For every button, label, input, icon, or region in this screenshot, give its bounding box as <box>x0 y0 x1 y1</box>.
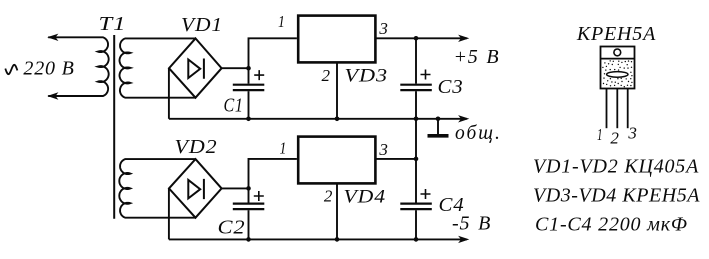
svg-text:1: 1 <box>597 125 603 144</box>
transformer T1 secondary winding upper <box>120 38 196 97</box>
svg-text:VD2: VD2 <box>175 136 218 158</box>
node C2 bottom on -5V rail <box>246 237 251 242</box>
arrowhead -5V <box>458 236 469 243</box>
node ground tap on common rail <box>436 117 441 122</box>
svg-text:C1: C1 <box>224 94 244 116</box>
capacitor C1 <box>233 68 264 119</box>
voltage regulator VD4 box <box>298 137 375 184</box>
wire common rail down to VD4 pin3 node <box>415 119 417 159</box>
svg-text:2: 2 <box>322 66 331 85</box>
wire riser C2 node to VD4 pin 1 <box>249 159 297 189</box>
bridge rectifier VD2 diamond <box>169 159 222 218</box>
capacitor C3 <box>400 38 432 119</box>
node C3 top on +5V rail <box>414 36 419 41</box>
node C1 bottom on common rail <box>246 117 251 122</box>
wire VD4 pin 3 to node <box>375 158 416 160</box>
wire VD3 pin 2 <box>336 62 338 118</box>
svg-text:VD3: VD3 <box>345 65 389 86</box>
node VD4 pin3 junction <box>414 157 419 162</box>
svg-text:C1-C4 2200 мкФ: C1-C4 2200 мкФ <box>535 214 688 236</box>
svg-text:VD1-VD2 КЦ405А: VD1-VD2 КЦ405А <box>533 156 699 178</box>
svg-text:T1: T1 <box>99 13 127 35</box>
arrowhead primary bottom lead <box>47 92 58 99</box>
sine symbol 220V <box>5 65 17 74</box>
KREN5A package stipple dots <box>602 60 632 87</box>
capacitor C4 <box>400 159 432 240</box>
capacitor C2 <box>233 188 264 239</box>
voltage regulator VD3 box <box>298 16 375 63</box>
svg-text:3: 3 <box>378 19 388 38</box>
diode symbol inside VD1 <box>188 59 204 79</box>
wire VD4 pin 2 <box>336 183 338 239</box>
wire VD2 minus vertical to bottom rail <box>168 188 170 239</box>
bridge rectifier VD1 diamond <box>169 38 222 97</box>
wire VD1 minus vertical to common rail <box>168 68 170 119</box>
diode symbol inside VD2 <box>188 179 204 199</box>
arrowhead common <box>458 115 469 122</box>
svg-text:VD3-VD4 КРЕН5А: VD3-VD4 КРЕН5А <box>533 185 700 207</box>
svg-text:VD1: VD1 <box>181 14 223 36</box>
ground symbol (common) <box>437 119 439 134</box>
transformer T1 secondary winding lower <box>119 159 195 218</box>
arrowhead +5V <box>458 35 469 42</box>
node VD4 pin2 on -5V rail <box>335 237 340 242</box>
svg-text:-5 В: -5 В <box>452 212 491 234</box>
wire riser C1 node to VD3 pin 1 <box>249 38 297 68</box>
svg-text:1: 1 <box>278 12 286 31</box>
svg-text:+5 В: +5 В <box>454 46 500 68</box>
node C1 top junction <box>246 66 251 71</box>
wire common rail <box>169 118 467 120</box>
node C2 top junction <box>246 186 251 191</box>
svg-text:общ.: общ. <box>455 123 502 144</box>
svg-text:220 В: 220 В <box>23 58 74 80</box>
svg-text:3: 3 <box>627 124 637 143</box>
svg-text:C3: C3 <box>438 76 464 98</box>
transformer T1 primary winding <box>48 37 108 96</box>
svg-text:1: 1 <box>280 139 288 158</box>
svg-text:2: 2 <box>324 186 333 205</box>
svg-text:3: 3 <box>378 140 388 159</box>
node C4 bottom on -5V rail <box>414 237 419 242</box>
node C3 bottom on common rail <box>414 117 419 122</box>
wire VD2 plus output to C2 node <box>222 187 249 189</box>
svg-text:КРЕН5А: КРЕН5А <box>576 23 656 45</box>
KREN5A package outline <box>601 47 635 129</box>
transformer T1 core <box>113 35 115 219</box>
svg-text:VD4: VD4 <box>344 186 387 207</box>
wire bottom -5V rail <box>169 238 467 240</box>
wire +5V rail from VD3 pin 3 <box>375 37 466 39</box>
node VD3 pin2 on common rail <box>335 117 340 122</box>
svg-text:C2: C2 <box>218 216 246 238</box>
arrowhead primary top lead <box>47 34 58 41</box>
wire VD1 plus output to C1 node <box>222 67 249 69</box>
svg-text:2: 2 <box>610 129 619 148</box>
